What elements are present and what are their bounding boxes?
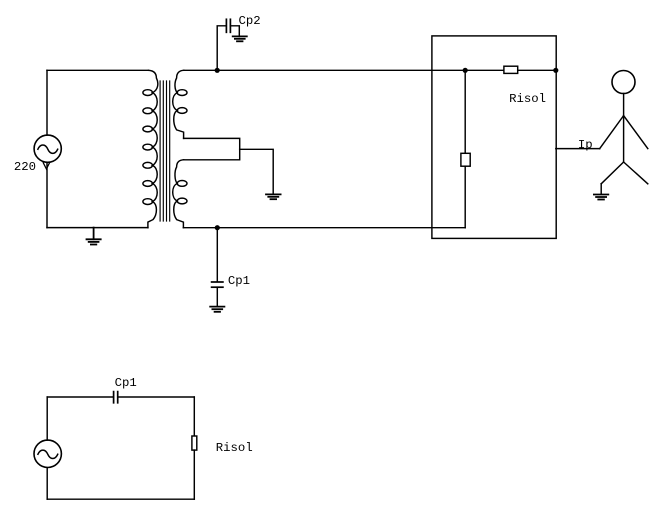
AC source V1 (220 V) (34, 135, 61, 162)
wire leakage branch upper (464, 70, 466, 153)
junction at Cp1 tap (215, 225, 220, 230)
resistor Risol (bottom circuit) box (192, 436, 197, 450)
transformer T1 core (160, 81, 170, 221)
wire center-tap lower (184, 149, 240, 160)
ground at center-tap (266, 194, 281, 199)
transformer T1 primary winding (143, 70, 158, 227)
wire leakage branch lower (464, 166, 466, 228)
wire bottom-circuit top-right (118, 396, 194, 398)
transformer T1 secondary lower winding (173, 160, 187, 228)
wire Risol to box edge (518, 69, 556, 71)
junction at Cp2 tap (215, 68, 220, 73)
wire person foot to ground (600, 184, 602, 195)
wire center-tap upper (184, 138, 240, 149)
ground at Cp2 (233, 36, 247, 41)
wire bottom-circuit right below resistor (193, 450, 195, 499)
person right arm (624, 116, 648, 149)
wire bottom-circuit left above source (46, 397, 48, 440)
wire Cp1 to ground (216, 287, 218, 306)
svg-text:Cp2: Cp2 (239, 14, 261, 28)
capacitor Cp1 (top circuit) (212, 282, 223, 287)
svg-text:Cp1: Cp1 (228, 274, 250, 288)
wire Cp1 riser (216, 228, 218, 282)
wire bottom-circuit left below source (46, 468, 48, 500)
wire bottom-circuit top-left (47, 396, 113, 398)
wire top-left (source loop top) (47, 69, 149, 71)
person body (623, 94, 625, 163)
wire secondary top to isolation box (184, 69, 504, 71)
arrow (voltage direction) on source V1 (43, 163, 49, 169)
person left arm (600, 116, 624, 149)
capacitor Cp2 (226, 19, 230, 32)
wire Cp2 to ground (230, 26, 239, 37)
person left leg (601, 162, 623, 184)
svg-text:Ip: Ip (578, 138, 593, 152)
resistor Risol horizontal box (504, 66, 518, 73)
svg-text:220: 220 (14, 160, 36, 174)
transformer T1 secondary upper winding (173, 70, 187, 138)
wire bottom-circuit right above resistor (193, 397, 195, 436)
wire center-tap to ground (240, 149, 274, 194)
svg-text:Risol: Risol (216, 441, 253, 455)
wire secondary bottom (183, 227, 465, 229)
ground at person (594, 195, 608, 200)
person head (612, 71, 635, 94)
capacitor Cp1 (bottom circuit) (114, 392, 118, 403)
svg-text:Risol: Risol (509, 92, 546, 106)
wire Ip to person hand (556, 148, 600, 150)
wire left vertical below source (46, 163, 48, 228)
junction at leakage branch (463, 68, 468, 73)
wire bottom-circuit bottom (47, 498, 194, 500)
person right leg (624, 162, 648, 184)
wire bottom-left (source loop bottom) (47, 227, 148, 229)
svg-text:Cp1: Cp1 (115, 376, 137, 390)
ground at Cp1 (210, 307, 224, 312)
wire left vertical above source (46, 70, 48, 135)
capacitor Cp2 riser wire (217, 26, 226, 71)
isolation equipment box (432, 36, 556, 239)
AC source V2 (34, 440, 61, 467)
ground at primary bottom (87, 228, 101, 245)
resistor (leakage) vertical box (461, 153, 470, 166)
junction at box right edge (553, 68, 558, 73)
